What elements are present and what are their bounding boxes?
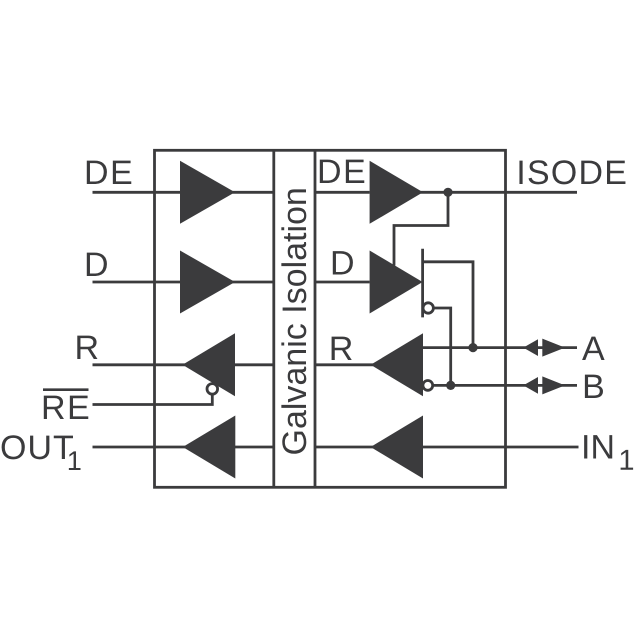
receiver buffer IN1 right (371, 416, 423, 479)
driver buffer DE right (370, 161, 423, 224)
wire driver inverting to B (433, 308, 451, 385)
label RE left (44, 396, 88, 419)
receiver buffer R right (371, 333, 423, 396)
wire R left receiver to barrier (235, 363, 274, 366)
label B (585, 375, 603, 398)
inversion bubble receiver B input (423, 381, 433, 391)
wire D left driver to barrier (233, 281, 274, 284)
wire DE left input (93, 191, 181, 194)
label D right (333, 251, 353, 274)
label R left (77, 336, 97, 359)
wire OUT1 receiver to barrier (235, 446, 274, 449)
wire OUT1 left output (93, 446, 186, 449)
wire RE input to enable bubble (93, 394, 213, 404)
label DE left (87, 161, 131, 184)
wire B bus (433, 384, 577, 387)
label IN1 subscript (621, 450, 634, 470)
wire DE right from barrier (315, 191, 370, 194)
junction dot B node (446, 381, 455, 390)
inversion bubble driver B output (423, 303, 433, 313)
wire driver noninverting to A (423, 262, 473, 348)
wire ISODE output (421, 191, 578, 194)
label IN1 (584, 435, 612, 458)
junction dot A node (468, 343, 477, 352)
arrowhead B right (542, 376, 565, 394)
wire R left output (93, 363, 186, 366)
label D left (87, 253, 107, 276)
driver output bar (421, 249, 424, 318)
label OUT1 left (2, 435, 73, 459)
label DE right (320, 160, 364, 183)
label OUT1 subscript (69, 451, 81, 470)
inversion bubble RE enable (207, 384, 218, 395)
wire A bus (423, 346, 577, 349)
wire D left input (93, 281, 181, 284)
label ISODE (519, 160, 625, 184)
wire DE enable to driver (394, 192, 448, 265)
galvanic isolation barrier left line (272, 150, 275, 487)
junction dot ISODE node (443, 188, 452, 197)
driver buffer D left (180, 251, 235, 314)
outer block frame (155, 150, 506, 487)
overline for RE label (43, 388, 89, 391)
wire D right from barrier (315, 281, 370, 284)
label Galvanic Isolation (281, 189, 306, 453)
wire DE left driver to barrier (233, 191, 274, 194)
arrowhead B left (523, 377, 538, 394)
galvanic isolation barrier right line (314, 150, 317, 487)
wire IN1 receiver output to barrier (315, 446, 373, 449)
arrowhead A left (523, 339, 538, 356)
wire R right receiver output to barrier (315, 363, 373, 366)
driver buffer D right (370, 251, 423, 314)
arrowhead A right (542, 339, 565, 357)
receiver buffer OUT1 left (183, 416, 236, 479)
label A (582, 337, 605, 360)
label R right (332, 337, 352, 360)
wire IN1 input (423, 446, 579, 449)
receiver buffer R left (183, 333, 236, 396)
driver buffer DE left (180, 161, 235, 224)
